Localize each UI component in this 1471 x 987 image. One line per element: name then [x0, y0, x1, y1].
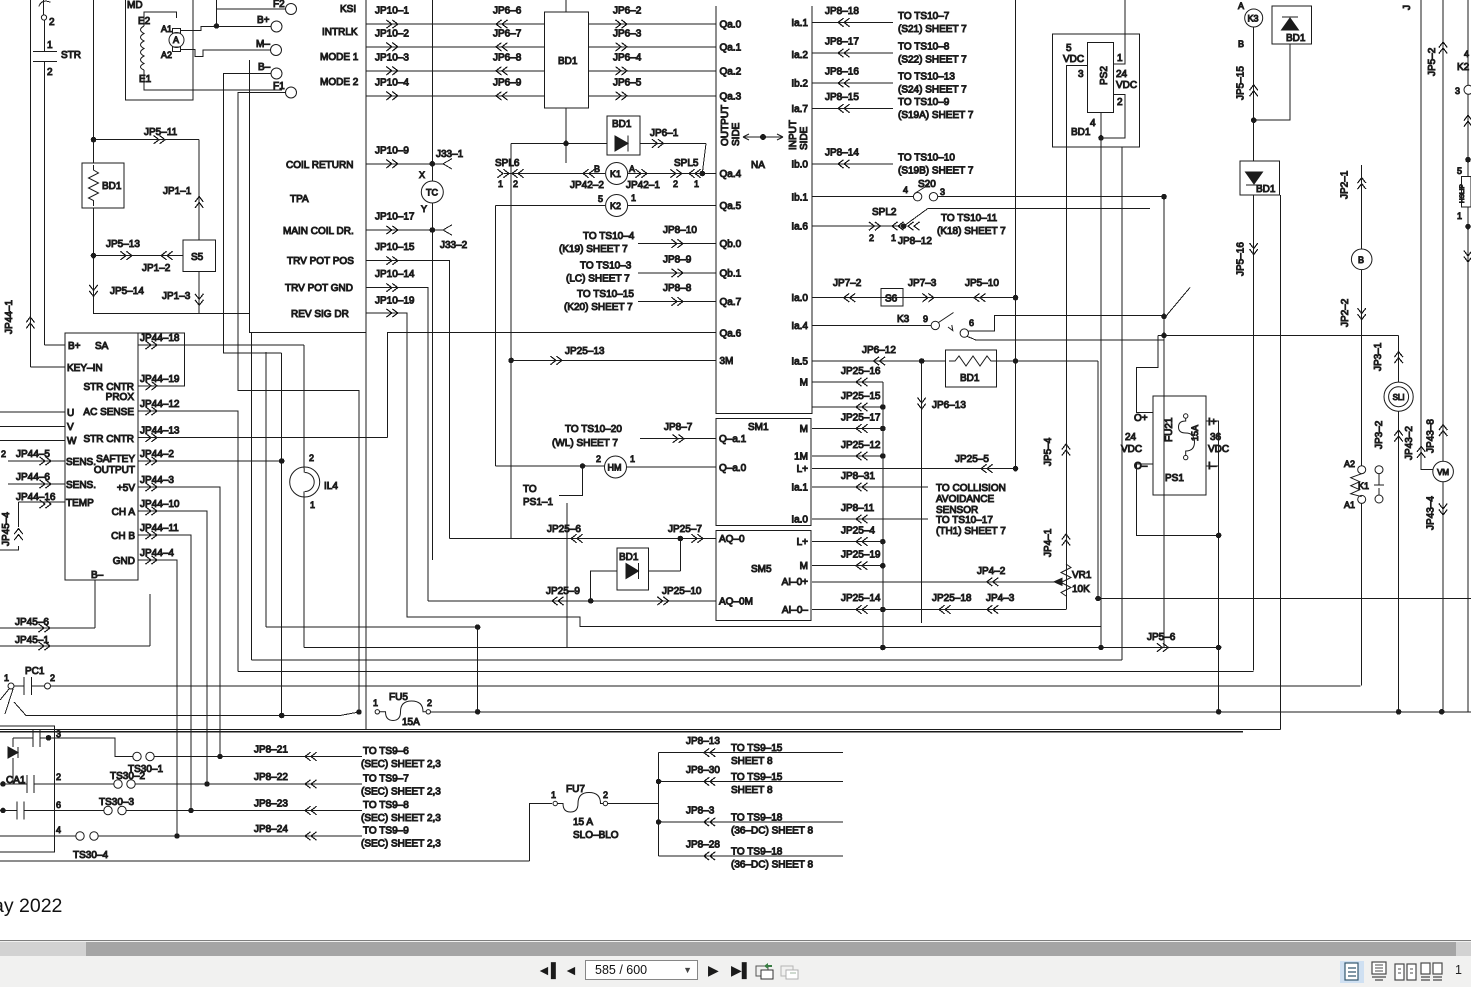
svg-text:1: 1 — [1457, 211, 1462, 221]
node JP8-3 — [656, 820, 661, 825]
wire TRV POT GND run — [366, 288, 428, 601]
svg-text:(K19) SHEET 7: (K19) SHEET 7 — [559, 244, 628, 255]
wire TO PS1-1 tap — [559, 466, 583, 495]
svg-text:TO TS10–7: TO TS10–7 — [898, 11, 950, 22]
wire JP10-4 row — [366, 95, 544, 97]
svg-text:Qb.0: Qb.0 — [720, 239, 742, 250]
wire SLI column — [1398, 335, 1400, 382]
svg-text:JP8–16: JP8–16 — [825, 67, 859, 78]
node JP5-10 — [1013, 295, 1018, 300]
connector JP1-2 — [161, 251, 173, 259]
wire armature A2 to M- — [181, 50, 271, 57]
svg-text:2: 2 — [596, 454, 601, 464]
svg-text:NA: NA — [751, 160, 765, 171]
svg-text:JP8–31: JP8–31 — [841, 471, 875, 482]
svg-text:JP5–2: JP5–2 — [1427, 47, 1438, 76]
svg-text:2: 2 — [427, 698, 432, 708]
svg-text:JP6–1: JP6–1 — [650, 128, 679, 139]
wire AQ diode right lead — [679, 539, 681, 572]
svg-text:JP6–8: JP6–8 — [493, 52, 522, 63]
fuse FU21 — [1184, 414, 1188, 418]
svg-text:JP44–3: JP44–3 — [140, 475, 174, 486]
svg-text:1: 1 — [891, 233, 896, 243]
wire right edge 2 — [1467, 94, 1469, 176]
wire TRV POT POS run — [366, 261, 449, 539]
svg-text:JP7–3: JP7–3 — [908, 278, 937, 289]
svg-text:2: 2 — [49, 17, 55, 28]
svg-text:TO TS10–17: TO TS10–17 — [936, 515, 993, 526]
svg-text:TO TS10–13: TO TS10–13 — [898, 72, 955, 83]
wire bus 627 — [266, 626, 478, 628]
svg-text:JP25–18: JP25–18 — [932, 593, 972, 604]
diode BD1 mid right — [1240, 161, 1280, 195]
svg-text:A2: A2 — [1344, 459, 1355, 469]
svg-text:JP25–17: JP25–17 — [841, 413, 881, 424]
wire JP45-6 — [0, 580, 95, 628]
svg-text:(WL) SHEET 7: (WL) SHEET 7 — [552, 438, 618, 449]
svg-text:5: 5 — [1457, 166, 1462, 176]
wire AQ-0 row — [450, 538, 716, 540]
svg-text:(S21) SHEET 7: (S21) SHEET 7 — [898, 24, 967, 35]
svg-text:B: B — [1238, 39, 1244, 49]
wire B- drop to FU5 node — [281, 353, 283, 716]
svg-text:JP5–6: JP5–6 — [1147, 632, 1176, 643]
svg-text:JP10–9: JP10–9 — [375, 146, 409, 157]
svg-text:JP8–24: JP8–24 — [254, 824, 288, 835]
svg-text:STR: STR — [61, 50, 81, 61]
node JP25-19 — [881, 563, 886, 568]
svg-text:BD1: BD1 — [960, 373, 980, 384]
wire JP1-3 to controller — [94, 312, 250, 314]
wire 3M row JP25-13 — [511, 359, 716, 361]
svg-text:SPL5: SPL5 — [674, 158, 699, 169]
node bus647 end — [1216, 645, 1221, 650]
wire bus 647 — [304, 647, 1218, 649]
wire controller inner drop — [251, 333, 253, 660]
wire JP6-2 row — [588, 23, 715, 25]
node J33-2 — [430, 228, 435, 233]
svg-text:36: 36 — [1210, 432, 1222, 443]
node JP25-17 — [881, 426, 886, 431]
wire JP25-4 row — [812, 541, 883, 543]
svg-text:JP10–19: JP10–19 — [375, 296, 415, 307]
svg-text:15A: 15A — [1190, 425, 1200, 441]
node JP25-13 tap — [509, 358, 514, 363]
node JP25-7 — [678, 536, 683, 541]
svg-text:Q–a.1: Q–a.1 — [719, 434, 747, 445]
wire S5 row — [94, 255, 184, 257]
node TS30-4 — [175, 834, 180, 839]
svg-text:Qa.1: Qa.1 — [720, 42, 742, 53]
svg-text:6: 6 — [56, 800, 61, 810]
wire FU5 riser — [477, 627, 479, 712]
svg-text:BD1: BD1 — [1256, 184, 1276, 195]
svg-text:1: 1 — [310, 500, 315, 510]
wire BD1 bottom stub — [565, 108, 567, 143]
svg-text:JP8–30: JP8–30 — [686, 765, 720, 776]
svg-text:K1: K1 — [1358, 481, 1369, 491]
svg-text:PC1: PC1 — [25, 666, 45, 677]
wire JP44-12 run — [138, 411, 238, 672]
node JP25-4 — [881, 539, 886, 544]
svg-text:A: A — [629, 164, 635, 174]
node bus647 m — [881, 645, 886, 650]
svg-text:BD1: BD1 — [558, 56, 578, 67]
svg-text:TO TS9–15: TO TS9–15 — [731, 743, 783, 754]
svg-text:2: 2 — [869, 233, 874, 243]
wire JP44-10 run — [138, 511, 207, 784]
svg-text:Qa.0: Qa.0 — [720, 20, 742, 31]
node FU5 out — [475, 710, 480, 715]
wire K3 route lower — [967, 336, 1164, 340]
wire mid drop 366 — [365, 333, 367, 730]
wire U stub — [0, 411, 65, 413]
wire K1 drop — [1361, 503, 1363, 685]
wire BD1 to node — [1254, 44, 1290, 120]
svg-text:9: 9 — [923, 314, 928, 324]
svg-text:SM5: SM5 — [751, 564, 772, 575]
connector right edge 2 — [1464, 251, 1471, 263]
wire JP45-1 — [0, 594, 150, 646]
svg-text:2: 2 — [309, 453, 314, 463]
svg-text:JP8–7: JP8–7 — [664, 422, 693, 433]
wire side arrow — [743, 134, 783, 140]
svg-text:TO TS10–10: TO TS10–10 — [898, 152, 955, 163]
svg-text:U: U — [67, 408, 74, 419]
node TS30-1 — [218, 754, 223, 759]
svg-text:JP6–9: JP6–9 — [493, 77, 522, 88]
svg-text:Ib.2: Ib.2 — [791, 79, 808, 90]
wire JP8-18 row — [812, 21, 893, 23]
svg-text:M–: M– — [256, 39, 270, 50]
svg-text:Qa.7: Qa.7 — [720, 297, 742, 308]
contact K1 aux — [1375, 466, 1383, 474]
node bus 711 vm — [1439, 710, 1444, 715]
svg-text:TC: TC — [426, 188, 438, 198]
svg-text:JP5–4: JP5–4 — [1043, 437, 1054, 466]
wire PS2 pin1 — [1114, 0, 1126, 64]
svg-text:K2: K2 — [610, 201, 621, 211]
svg-text:HSLIP: HSLIP — [1459, 184, 1466, 203]
svg-text:3: 3 — [1078, 69, 1084, 80]
wire S20 bus — [1163, 197, 1165, 648]
svg-text:JP8–8: JP8–8 — [663, 283, 692, 294]
wire PS2 pin4 bus — [1100, 112, 1102, 647]
svg-text:JP45–6: JP45–6 — [15, 617, 49, 628]
wire Ia.5 row — [812, 360, 1098, 362]
svg-text:1M: 1M — [794, 452, 808, 463]
wire FU7 right — [608, 803, 659, 805]
svg-text:JP8–23: JP8–23 — [254, 799, 288, 810]
svg-text:JP6–13: JP6–13 — [932, 400, 966, 411]
svg-text:TO TS9–7: TO TS9–7 — [363, 774, 409, 785]
svg-text:S20: S20 — [918, 179, 936, 190]
svg-text:JP25–10: JP25–10 — [662, 586, 702, 597]
node row3 — [46, 736, 51, 741]
svg-text:TS30–4: TS30–4 — [73, 850, 108, 861]
wire JP8-11 row — [812, 518, 928, 520]
svg-text:JP42–2: JP42–2 — [570, 180, 604, 191]
svg-text:JP10–1: JP10–1 — [375, 6, 409, 17]
wire right mid bus — [1121, 147, 1123, 660]
svg-text:JP2–1: JP2–1 — [1340, 170, 1351, 199]
module SM1 — [716, 419, 811, 526]
wire FU7 left — [529, 804, 552, 861]
wire JP8-16 row — [812, 82, 893, 84]
wire JP8-28 row — [659, 855, 843, 857]
fuse FU5 — [375, 710, 379, 714]
jumper TS30-4 — [76, 832, 84, 840]
svg-text:MODE 1: MODE 1 — [320, 52, 359, 63]
wire F2 — [217, 0, 286, 26]
svg-text:Qa.5: Qa.5 — [720, 201, 742, 212]
svg-text:A: A — [1238, 1, 1244, 11]
wire JP6-3 row — [588, 46, 715, 48]
svg-text:JP25–12: JP25–12 — [841, 440, 881, 451]
wire JP8-31 row — [812, 486, 928, 488]
terminal F2 — [286, 4, 297, 15]
svg-text:TO TS9–18: TO TS9–18 — [731, 813, 783, 824]
connector JP5-14 — [89, 285, 97, 297]
svg-text:(K18) SHEET 7: (K18) SHEET 7 — [937, 226, 1006, 237]
node S20 junction — [1162, 194, 1167, 199]
svg-text:JP44–5: JP44–5 — [16, 449, 50, 460]
svg-text:KEY–IN: KEY–IN — [67, 363, 103, 374]
svg-text:INTRLK: INTRLK — [322, 27, 358, 38]
svg-text:M: M — [800, 561, 808, 572]
svg-text:Ia.0: Ia.0 — [791, 293, 808, 304]
wire JP25-17 row — [812, 428, 883, 430]
wire B+ pin — [45, 344, 65, 346]
svg-text:JP42–1: JP42–1 — [626, 180, 660, 191]
svg-text:(K20) SHEET 7: (K20) SHEET 7 — [564, 302, 633, 313]
node J33-1 — [430, 162, 435, 167]
svg-text:Ia.6: Ia.6 — [791, 222, 808, 233]
wire TS30-2 out — [135, 783, 362, 785]
wire bus 711 left — [14, 702, 359, 716]
wire JP5-11 — [94, 139, 200, 141]
wire M bus — [882, 382, 884, 648]
svg-text:MAIN COIL DR.: MAIN COIL DR. — [283, 226, 354, 237]
svg-text:JP10–4: JP10–4 — [375, 77, 409, 88]
node JP6-13 tap — [919, 359, 924, 364]
svg-text:SAFTEY: SAFTEY — [96, 454, 135, 465]
svg-text:(S19B) SHEET 7: (S19B) SHEET 7 — [898, 165, 974, 176]
resistor BD1 — [82, 163, 124, 208]
wire JP44-11 run — [138, 535, 191, 811]
wire JP25-16 row — [812, 381, 883, 383]
svg-text:OUTPUT: OUTPUT — [94, 465, 135, 476]
svg-text:B: B — [1358, 255, 1364, 265]
svg-text:AVOIDANCE: AVOIDANCE — [936, 494, 994, 505]
svg-text:JP25–19: JP25–19 — [841, 550, 881, 561]
svg-text:JP10–14: JP10–14 — [375, 269, 415, 280]
svg-text:5: 5 — [1066, 43, 1072, 54]
controller SA — [65, 333, 138, 580]
node row6 left — [1, 808, 6, 813]
switch S5 — [183, 240, 216, 272]
svg-text:JP10–2: JP10–2 — [375, 28, 409, 39]
wire CA1 diode link — [12, 738, 14, 784]
svg-text:FU7: FU7 — [566, 784, 585, 795]
node JP25-9 — [588, 599, 593, 604]
svg-text:A1: A1 — [161, 24, 172, 34]
svg-text:JP10–3: JP10–3 — [375, 52, 409, 63]
svg-text:JP5–13: JP5–13 — [106, 239, 140, 250]
svg-text:B: B — [594, 164, 600, 174]
svg-text:TO COLLISION: TO COLLISION — [936, 483, 1006, 494]
svg-text:F1: F1 — [273, 81, 285, 92]
svg-text:SENS.: SENS. — [66, 457, 96, 468]
wire bus 711 right — [431, 711, 1471, 713]
capacitor row 2 — [27, 775, 34, 793]
svg-text:Ib.1: Ib.1 — [791, 193, 808, 204]
svg-text:(36–DC) SHEET 8: (36–DC) SHEET 8 — [731, 826, 814, 837]
svg-text:Qa.4: Qa.4 — [720, 169, 742, 180]
wire TC bottom — [431, 203, 433, 560]
wire bus 686 — [51, 685, 1361, 687]
wire JP25-12 row — [812, 455, 883, 457]
svg-text:VDC: VDC — [1063, 54, 1084, 65]
wire K2 to HM drop — [494, 206, 496, 466]
wire STR CNTR to Qa.6 — [387, 333, 715, 438]
svg-text:4: 4 — [1464, 49, 1469, 59]
svg-text:B+: B+ — [68, 341, 81, 352]
svg-text:AQ–0M: AQ–0M — [719, 597, 753, 608]
wire JP44-13 run — [138, 437, 388, 439]
svg-text:1: 1 — [1117, 53, 1123, 64]
svg-text:JP44–1: JP44–1 — [4, 300, 15, 334]
wire JP8-13 row — [659, 752, 843, 754]
wire JP6-13 drop — [921, 361, 923, 623]
svg-text:M: M — [800, 378, 808, 389]
svg-text:JP8–21: JP8–21 — [254, 745, 288, 756]
svg-text:JP25–7: JP25–7 — [668, 524, 702, 535]
motor MD — [126, 0, 193, 100]
wire top-left stub — [43, 0, 45, 15]
capacitor row 6 — [17, 802, 24, 820]
svg-text:Ib.0: Ib.0 — [791, 159, 808, 170]
svg-text:JP6–3: JP6–3 — [613, 28, 642, 39]
svg-text:JP4–2: JP4–2 — [977, 566, 1006, 577]
svg-text:TO TS10–9: TO TS10–9 — [898, 97, 950, 108]
svg-text:SHEET 8: SHEET 8 — [731, 756, 773, 767]
wire long bus 598 — [1098, 598, 1471, 600]
svg-text:JP25–14: JP25–14 — [841, 593, 881, 604]
wire S20 row — [812, 196, 1164, 198]
node Ia.5 bus — [1096, 596, 1101, 601]
svg-text:JP4–1: JP4–1 — [1043, 528, 1054, 557]
svg-text:M: M — [800, 424, 808, 435]
switch contact top-left — [39, 1, 50, 6]
wire JP6-1 diagonal — [702, 143, 706, 173]
wire JP45-4 jog — [0, 546, 19, 550]
wire PC1 diagonals — [0, 689, 13, 714]
svg-text:Ia.7: Ia.7 — [791, 104, 808, 115]
svg-text:JP8–15: JP8–15 — [825, 92, 859, 103]
svg-text:Y: Y — [421, 204, 427, 214]
wire S5 to JP1-3 — [198, 272, 200, 314]
svg-text:Ia.0: Ia.0 — [791, 515, 808, 526]
svg-text:PS2: PS2 — [1099, 66, 1110, 85]
node HM tap — [580, 464, 585, 469]
wire row3 out — [49, 738, 134, 757]
node BD1 out — [1013, 359, 1018, 364]
svg-text:JP10–17: JP10–17 — [375, 212, 415, 223]
node PS2 pin4 — [1099, 136, 1104, 141]
node TS30-2 — [205, 782, 210, 787]
node row2 left — [1, 782, 6, 787]
wire diagonal corner — [1164, 288, 1190, 319]
wire JP8-17 row — [812, 52, 893, 54]
diode block BD1 top — [544, 12, 588, 108]
svg-text:(SEC) SHEET 2,3: (SEC) SHEET 2,3 — [361, 839, 441, 850]
wire JP43-8 column — [1442, 0, 1444, 461]
node SPL2 — [901, 224, 906, 229]
svg-text:Q–a.0: Q–a.0 — [719, 463, 747, 474]
wire row6 — [0, 810, 104, 812]
svg-text:2: 2 — [56, 772, 61, 782]
wire KEY-IN pin — [30, 366, 65, 368]
wire right edge 3 — [1467, 207, 1469, 712]
jumper TS30-1 — [133, 752, 141, 760]
svg-text:Ia.1: Ia.1 — [791, 18, 808, 29]
svg-text:JP2–2: JP2–2 — [1340, 298, 1351, 327]
svg-text:2: 2 — [673, 179, 678, 189]
svg-text:TO TS9–15: TO TS9–15 — [731, 772, 783, 783]
svg-text:1: 1 — [630, 454, 635, 464]
node JP25-5 — [1013, 466, 1018, 471]
wire O+ jog — [1137, 335, 1159, 412]
wire BD1 top stub — [565, 0, 567, 12]
node JP8-30 — [656, 779, 661, 784]
svg-text:TS30–3: TS30–3 — [99, 797, 134, 808]
svg-text:JP6–4: JP6–4 — [613, 52, 642, 63]
svg-text:JP44–16: JP44–16 — [16, 492, 56, 503]
svg-text:SLO–BLO: SLO–BLO — [573, 830, 619, 841]
node BD1/JP6-1 — [564, 141, 569, 146]
svg-text:JP7–2: JP7–2 — [833, 278, 862, 289]
node JP25-15 — [881, 405, 886, 410]
svg-text:I+: I+ — [1208, 417, 1217, 428]
svg-text:IL4: IL4 — [324, 481, 338, 492]
svg-text:K2: K2 — [1457, 62, 1470, 73]
terminal M- — [271, 45, 282, 56]
svg-text:JP43–4: JP43–4 — [1426, 496, 1437, 530]
svg-text:S6: S6 — [885, 294, 898, 305]
terminal B- — [271, 68, 282, 79]
svg-text:6: 6 — [969, 318, 974, 328]
terminal B — [1351, 249, 1372, 270]
lamp IL4 — [290, 467, 320, 497]
svg-text:4: 4 — [1090, 118, 1096, 129]
svg-text:JP1–3: JP1–3 — [162, 291, 191, 302]
wire AI-0- row — [812, 609, 1066, 611]
connector JP6-13 — [918, 398, 926, 410]
svg-text:2: 2 — [50, 673, 55, 683]
node O- bus — [1216, 533, 1221, 538]
svg-text:VR1: VR1 — [1072, 570, 1092, 581]
wire K3 drop — [1253, 27, 1255, 161]
diode block BD1/PS2 — [1053, 34, 1140, 147]
svg-text:JP44–13: JP44–13 — [140, 426, 180, 437]
svg-text:TO TS9–9: TO TS9–9 — [363, 826, 409, 837]
wire O- jog — [1137, 464, 1219, 535]
wire JP6-5 row — [588, 95, 715, 97]
svg-text:4: 4 — [903, 185, 908, 195]
switch S20 — [913, 193, 921, 201]
svg-text:TO TS10–4: TO TS10–4 — [583, 231, 635, 242]
